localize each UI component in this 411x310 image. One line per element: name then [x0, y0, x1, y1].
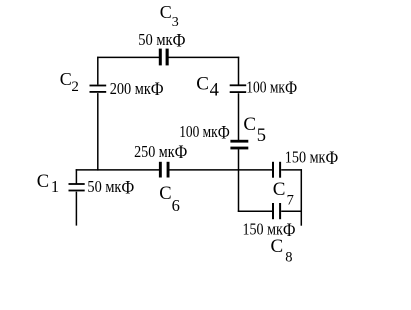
wire left vertical upper	[97, 57, 99, 85]
svg-text:200 мкФ: 200 мкФ	[110, 79, 164, 100]
svg-text:250 мкФ: 250 мкФ	[134, 142, 187, 163]
svg-text:C: C	[160, 2, 172, 22]
capacitor C5	[230, 140, 248, 150]
svg-text:150 мкФ: 150 мкФ	[243, 220, 296, 241]
wire right terminal vertical	[300, 169, 302, 226]
wire top-right segment	[168, 56, 239, 58]
svg-text:C: C	[159, 184, 171, 204]
value 50 мкФ (C1)	[87, 177, 134, 198]
svg-text:3: 3	[172, 15, 179, 30]
svg-text:150 мкФ: 150 мкФ	[285, 147, 339, 168]
svg-text:6: 6	[172, 196, 180, 215]
svg-text:4: 4	[210, 81, 219, 101]
capacitor C6	[159, 162, 170, 178]
label C6	[159, 184, 180, 215]
wire middle segment right	[281, 169, 302, 171]
value 100 мкФ (C5)	[179, 122, 230, 143]
label C1	[37, 172, 59, 196]
svg-text:100 мкФ: 100 мкФ	[179, 122, 230, 143]
wire left vertical lower	[97, 93, 99, 171]
value 250 мкФ (C6)	[134, 142, 187, 163]
svg-text:C: C	[60, 69, 72, 89]
value 150 мкФ (C8)	[243, 220, 296, 241]
svg-text:1: 1	[51, 177, 59, 196]
wire middle segment left	[76, 169, 160, 171]
wire bottom segment right	[281, 210, 302, 212]
wire middle segment center	[169, 169, 272, 171]
svg-text:C: C	[273, 179, 286, 200]
svg-text:7: 7	[287, 192, 294, 208]
capacitor C7	[272, 162, 281, 178]
value 100 мкФ (C4)	[246, 78, 297, 99]
wire right vertical middle	[238, 93, 240, 140]
label C3	[160, 2, 179, 30]
capacitor C3	[159, 49, 169, 66]
value 50 мкФ (C3)	[138, 30, 186, 51]
wire right vertical upper	[238, 57, 240, 85]
wire C1 terminal stub	[75, 192, 77, 226]
value 150 мкФ (C7)	[285, 147, 339, 168]
label C7	[273, 179, 294, 208]
capacitor C2	[90, 85, 107, 93]
svg-text:2: 2	[71, 79, 79, 95]
svg-text:50 мкФ: 50 мкФ	[87, 177, 134, 198]
label C4	[196, 74, 219, 101]
svg-text:C: C	[271, 236, 284, 257]
svg-text:8: 8	[285, 250, 292, 266]
svg-text:100 мкФ: 100 мкФ	[246, 78, 297, 99]
label C2	[60, 69, 79, 95]
svg-text:5: 5	[257, 126, 266, 146]
wire C1 stub upper	[75, 169, 77, 183]
capacitor C8	[272, 203, 281, 219]
wire top-left segment	[97, 56, 159, 58]
svg-text:C: C	[196, 74, 209, 95]
label C8	[271, 236, 293, 266]
svg-text:C: C	[243, 114, 256, 135]
wire right vertical lower	[238, 149, 240, 212]
wire bottom segment left	[238, 210, 272, 212]
value 200 мкФ (C2)	[110, 79, 164, 100]
capacitor C1	[69, 183, 85, 191]
capacitor C4	[230, 84, 247, 93]
svg-text:C: C	[37, 172, 49, 192]
svg-text:50 мкФ: 50 мкФ	[138, 30, 186, 51]
label C5	[243, 114, 266, 146]
